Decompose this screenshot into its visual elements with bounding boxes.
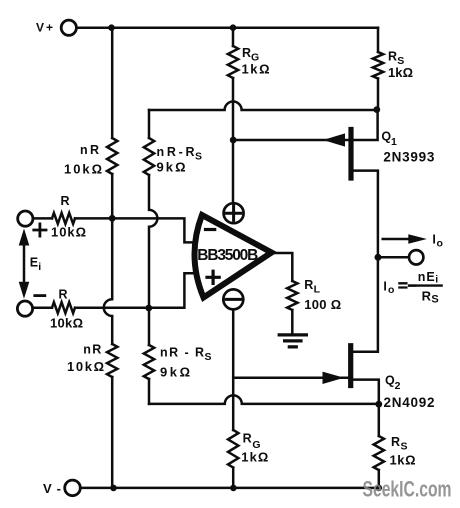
svg-text:R: R <box>422 288 432 303</box>
svg-text:E: E <box>30 256 38 270</box>
wire RL to ground <box>291 310 294 334</box>
svg-text:i: i <box>435 274 438 286</box>
node junction top-left <box>108 24 115 31</box>
svg-text:L: L <box>314 283 321 295</box>
op-amp V- pin minus sign <box>226 298 240 301</box>
wire R to plus node <box>75 273 195 308</box>
svg-text:10kΩ: 10kΩ <box>50 315 83 330</box>
node output junction <box>375 254 382 261</box>
wire Io arrow <box>383 238 410 241</box>
terminal V- <box>65 480 81 496</box>
label RL <box>304 278 320 295</box>
wire output to terminal <box>378 256 408 259</box>
svg-text:1kΩ: 1kΩ <box>390 453 416 468</box>
svg-text:o: o <box>388 284 394 296</box>
label formula Io = -nEi/RS <box>383 280 394 297</box>
wire RS bottom to V- rail <box>378 470 381 488</box>
label formula numerator nEi <box>418 270 439 286</box>
transistor Q1 gate arrow <box>323 133 345 146</box>
svg-text:2N4092: 2N4092 <box>384 395 435 410</box>
svg-text:1kΩ: 1kΩ <box>242 62 270 77</box>
wire Q2 source lead down <box>353 380 379 405</box>
label RS top <box>388 50 404 68</box>
label Ei <box>30 256 42 273</box>
node plus-input junction <box>145 305 152 312</box>
node Q2 source junction <box>375 401 382 408</box>
svg-text:100 Ω: 100 Ω <box>304 297 341 312</box>
svg-text:10kΩ: 10kΩ <box>51 224 86 239</box>
label RG top <box>242 46 259 64</box>
op-amp V+ pin plus sign <box>226 206 240 220</box>
label nR-RS bottom <box>160 346 212 364</box>
node Q1 gate junction <box>230 137 237 144</box>
label formula denominator RS <box>422 288 439 305</box>
node junction V- nR <box>110 485 117 492</box>
svg-text:1kΩ: 1kΩ <box>241 450 268 465</box>
svg-text:2N3993: 2N3993 <box>383 149 434 164</box>
svg-text:Q: Q <box>385 373 395 387</box>
svg-text:o: o <box>437 237 443 249</box>
label nR-RS top <box>157 145 203 163</box>
resistor RG top 1k <box>228 46 238 78</box>
resistor R top 10k <box>52 213 75 224</box>
terminal input minus <box>17 301 32 316</box>
svg-text:nR - R: nR - R <box>160 346 204 360</box>
svg-text:i: i <box>38 261 41 273</box>
transistor Q1 channel <box>348 130 353 179</box>
label Io <box>432 233 443 250</box>
transistor Q2 channel <box>348 346 353 386</box>
arrowhead Ei bottom <box>19 282 30 299</box>
wire plus node to nR-RS bottom <box>148 308 151 345</box>
node junction top RG <box>230 24 237 31</box>
label Q1 <box>381 129 397 148</box>
wire Q2 drain from output line <box>353 257 378 351</box>
wire Q2 source to RS bottom <box>378 404 381 436</box>
svg-text:9kΩ: 9kΩ <box>157 160 186 175</box>
wire plus terminal to R <box>33 217 52 220</box>
svg-text:10kΩ: 10kΩ <box>64 162 102 177</box>
svg-text:nE: nE <box>418 270 435 284</box>
node junction V- RS <box>376 485 383 492</box>
resistor RS bottom 1k <box>374 436 384 470</box>
wire Q1 upper lead to RS junction <box>351 110 378 140</box>
svg-text:10kΩ: 10kΩ <box>67 359 104 374</box>
label plus at input <box>34 224 46 236</box>
wire V- rail <box>82 487 379 490</box>
wire RS top from rail <box>377 28 380 52</box>
wire nR-RS branch with hop over minus-input wire <box>149 175 157 308</box>
wire nR top to minus-input node <box>111 174 114 218</box>
wire H2 nR-RS bottom to Q2 source with hop over RG line <box>149 395 379 404</box>
wire top rail <box>78 26 379 29</box>
svg-text:R: R <box>391 435 400 449</box>
svg-text:1kΩ: 1kΩ <box>388 65 413 80</box>
wire H1 to RS bottom with hop over RG line <box>149 102 377 111</box>
svg-text:BB3500B: BB3500B <box>197 247 258 264</box>
label formula equals sign <box>399 283 406 287</box>
resistor RG bottom 1k <box>228 430 238 468</box>
svg-text:R: R <box>59 288 68 302</box>
label formula fraction bar <box>417 284 442 286</box>
source Ei arrow <box>23 240 26 287</box>
wire op-amp V- pin down to RG bottom <box>232 309 235 430</box>
svg-text:R: R <box>304 278 313 292</box>
svg-text:I: I <box>432 233 435 247</box>
resistor RS top 1k <box>373 52 383 79</box>
svg-text:R: R <box>243 432 252 446</box>
label formula minus sign <box>409 284 415 287</box>
svg-text:S: S <box>431 294 438 306</box>
resistor RL 100ohm <box>287 281 297 310</box>
wire RS bottom to junction <box>377 79 380 111</box>
wire nR branch middle with hop over plus-input wire <box>104 218 112 344</box>
wire nR branch upper <box>111 28 114 138</box>
svg-text:SeekIC.com: SeekIC.com <box>363 476 452 501</box>
op-amp V+ pin circle <box>224 203 244 223</box>
svg-text:S: S <box>205 351 212 363</box>
label RG bottom <box>243 432 261 451</box>
resistor nR bottom 10k <box>107 344 117 377</box>
wire RG bottom to V- rail <box>232 468 235 489</box>
op-amp plus input label <box>207 271 219 283</box>
svg-text:nR: nR <box>83 342 101 356</box>
wire minus terminal to R <box>33 306 52 309</box>
label RS bottom <box>391 435 408 453</box>
arrowhead Io <box>408 234 427 243</box>
resistor R bottom 10k <box>52 302 75 313</box>
svg-text:R: R <box>61 194 70 208</box>
terminal Io output <box>409 250 423 264</box>
arrowhead Ei top <box>19 229 30 246</box>
wire Q1 lower lead to output line <box>353 171 378 258</box>
wire op-amp output to RL <box>273 253 292 281</box>
wire Q2 gate from RG-bottom line <box>233 377 348 380</box>
svg-text:9kΩ: 9kΩ <box>160 365 190 380</box>
terminal V+ <box>61 20 76 35</box>
svg-text:S: S <box>195 151 202 163</box>
svg-text:Q: Q <box>381 129 391 143</box>
svg-text:nR: nR <box>80 143 99 157</box>
transistor Q2 gate arrow <box>323 372 345 384</box>
resistor nR-RS top 9k <box>144 138 154 175</box>
node junction V- RG <box>230 485 237 492</box>
svg-text:S: S <box>401 441 408 453</box>
wire nR-RS bottom corner <box>148 379 151 404</box>
terminal input plus <box>18 211 33 226</box>
ground <box>279 335 306 347</box>
svg-text:R: R <box>388 50 397 64</box>
wire Q1 gate from RG node <box>233 139 349 142</box>
svg-text:nR-R: nR-R <box>157 145 195 159</box>
resistor nR-RS bottom 9k <box>144 345 154 379</box>
wire RG top from rail <box>232 28 235 46</box>
wire nR-RS top branch from H1 <box>148 110 151 138</box>
node RS-bottom junction <box>373 106 380 113</box>
label Q2 <box>385 373 401 392</box>
wire nR bottom to V- rail <box>111 377 114 488</box>
resistor nR top 10k <box>107 138 117 174</box>
svg-text:I: I <box>383 280 386 294</box>
label minus at input <box>35 294 45 297</box>
wire RG to op-amp V+ pin <box>232 78 235 204</box>
node minus-input junction <box>109 215 116 222</box>
op-amp minus input label <box>206 228 215 231</box>
svg-text:R: R <box>242 46 251 60</box>
op-amp U1 body <box>195 215 272 298</box>
op-amp V- pin circle <box>223 289 243 309</box>
svg-text:1: 1 <box>391 136 397 148</box>
wire R to op-amp minus input <box>75 218 195 242</box>
svg-text:2: 2 <box>395 380 401 392</box>
